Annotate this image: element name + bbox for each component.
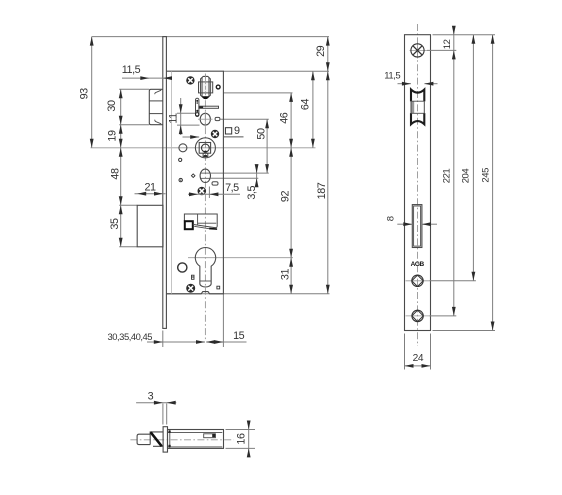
small slot right of upper oval [215, 117, 220, 120]
wire: extension line case top right [223, 70, 329, 72]
svg-text:3,5: 3,5 [246, 186, 258, 200]
wire: extension oval top (dim 11) [177, 112, 196, 114]
follower square spindle hole 9mm [199, 143, 210, 154]
deadbolt thrown (left of faceplate) [137, 205, 163, 247]
latch case (bottom view) [168, 430, 224, 449]
wire: extension line case bottom right [167, 293, 330, 295]
svg-text:93: 93 [78, 88, 90, 100]
wire: extension oval bottom (dim 11) [177, 124, 200, 126]
svg-text:11,5: 11,5 [384, 71, 400, 82]
dim 29+187 line [327, 37, 329, 294]
wire: ext screw1 line right [427, 49, 456, 51]
svg-text:11: 11 [167, 113, 179, 124]
hole left of follower [179, 144, 187, 152]
screw S3 (below lower oval) [198, 187, 206, 195]
wire: extension faceplate front down (backset) [162, 331, 164, 348]
latch opening in plate [411, 101, 414, 113]
dim 3 extensions [162, 404, 164, 425]
deadbolt mechanism block [184, 214, 217, 225]
lever vertical bar [196, 98, 199, 116]
deadbolt tail blade [193, 224, 217, 227]
screw hole top (plate) [410, 49, 428, 51]
svg-text:12: 12 [442, 39, 453, 49]
tiny square right bottom [217, 286, 220, 289]
dim 16 line [248, 421, 250, 457]
dim 11.5 line (latch projection) [122, 77, 171, 79]
wire: plate centre line [417, 24, 419, 346]
follower dark detail [204, 151, 208, 153]
wire: extension deadbolt top left [119, 204, 137, 206]
svg-text:9: 9 [234, 125, 240, 137]
latch spring detail (bottom view) [204, 434, 216, 438]
svg-text:24: 24 [413, 353, 424, 364]
svg-text:64: 64 [299, 99, 311, 111]
svg-text:204: 204 [461, 169, 472, 184]
svg-text:35: 35 [109, 218, 121, 230]
latch bevel thick diagonal [151, 432, 162, 446]
lever bottom pivot circle [196, 113, 199, 116]
screw S2 (above follower) [211, 130, 218, 137]
follower hub outer circle [195, 138, 215, 158]
svg-text:16: 16 [236, 433, 248, 445]
lock case outline [166, 71, 223, 294]
svg-text:30: 30 [106, 100, 118, 112]
hole right of latch [216, 85, 220, 89]
lower oval hole [200, 169, 210, 182]
wire: follower axis line [91, 147, 316, 149]
wire: extension lower oval lower line (dim 3.5) [211, 177, 258, 179]
latch bolt head inside case [199, 82, 213, 93]
wire: extension lower oval upper line (dims 50, 3.5) [211, 172, 269, 174]
dim 64 line [312, 71, 314, 148]
svg-text:50: 50 [255, 128, 267, 140]
follower inner circle [202, 144, 210, 152]
latch bevel tick top [155, 90, 162, 94]
small diamond hole [191, 174, 195, 178]
latch bolt head (bottom view) [137, 434, 150, 444]
small hole with dot [179, 178, 182, 181]
wire: extension deadbolt bottom left [119, 246, 137, 248]
svg-text:21: 21 [144, 181, 156, 193]
hole left of cylinder [178, 263, 187, 272]
wire: cylinder axis line [188, 257, 293, 259]
wire: ext plate bottom right [433, 330, 496, 332]
latch bolt protruding (main view) [149, 89, 163, 124]
wire: ext screw2 line right [430, 280, 476, 282]
svg-text:15: 15 [233, 330, 245, 342]
wire: extension case right edge down (dim 15) [222, 294, 224, 347]
dim 24 line [405, 365, 431, 367]
dim 46+92+31 line [290, 93, 292, 294]
dim 50 line [266, 119, 268, 173]
screw hole middle (plate) [406, 280, 430, 282]
svg-text:30,35,40,45: 30,35,40,45 [108, 331, 153, 342]
svg-text:8: 8 [386, 216, 397, 221]
wire: vertical centre line of lock [204, 74, 206, 342]
svg-text:46: 46 [278, 112, 290, 124]
euro profile cylinder hole [195, 247, 215, 287]
svg-text:3: 3 [148, 390, 154, 402]
svg-text:187: 187 [316, 182, 328, 199]
latch bar stop marks [169, 431, 171, 433]
dim 8 line [397, 223, 412, 225]
lever horizontal bar [199, 106, 219, 108]
svg-text:7,5: 7,5 [225, 182, 239, 194]
faceplate front view outline [405, 35, 431, 331]
dim label square 9 [225, 128, 231, 134]
screw hole bottom (plate) [406, 315, 430, 317]
deadbolt drive square (thick) [185, 221, 193, 229]
svg-text:31: 31 [279, 269, 291, 281]
dim 93 line [91, 37, 93, 148]
tiny square left [192, 275, 195, 279]
faceplate bar (bottom view) [163, 427, 167, 452]
wire: extension latch top left [119, 88, 149, 90]
lever rivets [196, 100, 198, 102]
faceplate edge view (main) [163, 37, 167, 329]
dim 21 line [135, 193, 166, 195]
svg-text:29: 29 [315, 45, 327, 57]
svg-text:11,5: 11,5 [122, 64, 141, 76]
case inner wall line [170, 71, 172, 294]
svg-text:221: 221 [441, 169, 452, 184]
svg-text:19: 19 [106, 130, 118, 142]
screw S4 (bottom left) [187, 284, 195, 292]
dim 7.5 line [188, 193, 240, 195]
latch head dark tip [203, 97, 208, 99]
wire: extension line latch flange bottom [223, 92, 292, 94]
screw S1 (main, top) [187, 77, 194, 84]
dim 9 arrows (square hole) [183, 136, 200, 138]
wire: extension latch bottom left [119, 124, 149, 126]
svg-text:48: 48 [110, 168, 122, 180]
dim 3.5 line [256, 165, 258, 187]
wire: extension line faceplate top [92, 36, 329, 38]
dim 11.5 line (plate) [398, 83, 411, 85]
follower bottom tab [203, 153, 208, 156]
wire: ext plate top right [433, 34, 496, 36]
dim backset line 30,35,40,45 [147, 341, 205, 343]
dim 245 line [492, 35, 494, 331]
latch head centre line [205, 75, 207, 100]
dim 204 line [472, 35, 474, 281]
dim 3 line [136, 402, 176, 404]
dim 12+221 line [453, 27, 455, 316]
small hole below-left of follower [179, 158, 182, 161]
deadbolt slot in plate [412, 205, 422, 248]
svg-text:92: 92 [280, 191, 292, 203]
dim chain 30/19/48/35 line [120, 89, 122, 247]
upper oval hole [200, 113, 210, 125]
wire: bottom view centre line [130, 439, 233, 441]
dim 11 line [180, 98, 182, 135]
svg-text:AGB: AGB [411, 261, 425, 268]
wire: extension upper oval axis (dim 50) [221, 118, 269, 120]
wire: ext screw3 line right [430, 315, 457, 317]
svg-text:245: 245 [481, 168, 492, 183]
dim 24 extensions [404, 334, 406, 370]
latch bevel tick bottom [155, 120, 162, 124]
small slot lower right [212, 182, 218, 185]
dim 16 extensions [226, 429, 256, 431]
